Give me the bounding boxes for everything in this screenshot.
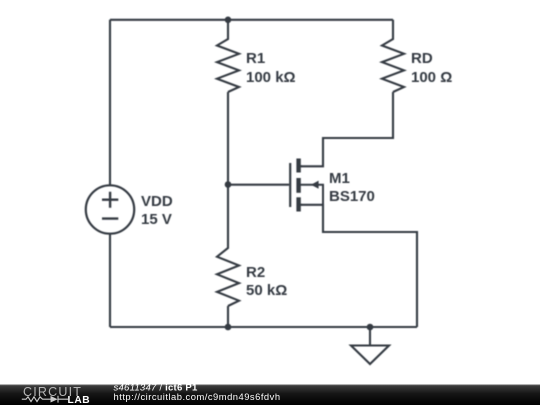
svg-text:RD: RD bbox=[411, 50, 433, 67]
wire left rail bbox=[109, 20, 111, 186]
ground bbox=[351, 327, 389, 364]
svg-text:LAB: LAB bbox=[68, 395, 91, 405]
svg-text:BS170: BS170 bbox=[329, 188, 375, 205]
node top rail R1 bbox=[225, 17, 232, 24]
wire R2 to bottom rail bbox=[227, 306, 229, 327]
wire bottom rail bbox=[110, 326, 417, 328]
transistor M1 BS170 bbox=[290, 159, 323, 212]
svg-text:15 V: 15 V bbox=[141, 211, 172, 228]
svg-text:R1: R1 bbox=[246, 50, 265, 67]
wire R1 to gate node bbox=[227, 92, 229, 184]
voltage source VDD 15 V bbox=[86, 185, 134, 233]
wire gate bbox=[228, 184, 289, 186]
footer bar bbox=[0, 385, 540, 405]
node ground bbox=[367, 324, 374, 331]
svg-text:VDD: VDD bbox=[141, 193, 173, 210]
resistor RD bbox=[382, 20, 404, 92]
resistor R2 bbox=[217, 184, 239, 306]
CircuitLab logo resistor-diode squiggle bbox=[22, 396, 68, 403]
wire RD to drain bbox=[301, 92, 393, 166]
wire source to bottom rail bbox=[301, 205, 417, 327]
node bottom rail R2 bbox=[225, 324, 232, 331]
svg-text:M1: M1 bbox=[329, 170, 350, 187]
wire VDD bottom lead bbox=[109, 234, 111, 327]
resistor R1 bbox=[217, 20, 239, 92]
wire top rail bbox=[110, 19, 393, 21]
svg-text:100 kΩ: 100 kΩ bbox=[246, 69, 296, 86]
svg-text:50 kΩ: 50 kΩ bbox=[246, 282, 287, 299]
svg-text:100 Ω: 100 Ω bbox=[411, 69, 452, 86]
node gate bbox=[225, 181, 232, 188]
svg-text:R2: R2 bbox=[246, 264, 265, 281]
svg-text:http://circuitlab.com/c9mdn49s: http://circuitlab.com/c9mdn49s6fdvh bbox=[114, 391, 281, 402]
